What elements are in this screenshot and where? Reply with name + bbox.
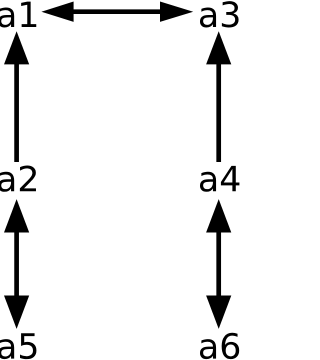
edge a2-a1 arrow (head up) xyxy=(4,31,29,162)
node a3 label xyxy=(200,1,239,27)
edge a2-a5 double-headed arrow xyxy=(4,199,29,329)
node a4 label xyxy=(200,166,239,192)
edge a4-a3 arrow (head up) xyxy=(206,31,231,162)
node a2 label xyxy=(0,165,36,191)
node a1 label xyxy=(0,2,36,28)
edge a1-a3 double-headed arrow xyxy=(41,2,193,22)
node a6 label xyxy=(200,333,239,359)
node a5 label xyxy=(0,333,36,359)
edge a4-a6 double-headed arrow xyxy=(206,199,231,329)
